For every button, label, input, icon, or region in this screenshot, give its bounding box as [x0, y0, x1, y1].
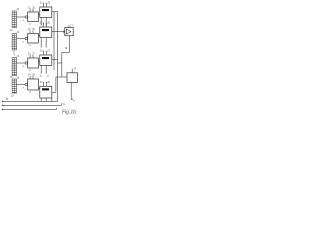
- tap numerals: [28, 28, 36, 31]
- delay line DL4: [12, 79, 16, 93]
- wire from DL4: [17, 84, 26, 86]
- L3 end tick: [56, 108, 58, 110]
- bus wire B2: [57, 12, 59, 102]
- wire A2 to F2: [38, 35, 39, 37]
- output line L3: [3, 108, 57, 110]
- junction circle J4: [25, 83, 27, 85]
- U2 top lead: [71, 69, 73, 73]
- bottom leads of F2: [41, 38, 47, 48]
- bias taps on A1: [30, 9, 33, 12]
- delay line DL3: [12, 58, 16, 76]
- numerals under F3 leads: [40, 75, 50, 77]
- U2 input wire: [56, 76, 67, 78]
- junction circle J3: [25, 62, 27, 64]
- output terminal tick: [71, 99, 73, 101]
- U2 output wire: [70, 82, 72, 99]
- output wire of F1: [52, 11, 58, 13]
- filter box F4: [40, 86, 52, 98]
- bus stub: [58, 62, 62, 64]
- delay line DL2: [12, 34, 16, 51]
- svg-text:Fig.1b: Fig.1b: [62, 109, 76, 115]
- wire into amplifier A1: [26, 16, 28, 18]
- repetition ellipsis dots: [13, 51, 16, 55]
- output wire of F4: [52, 92, 56, 94]
- summing amplifier U2: [67, 73, 77, 83]
- U1 input bar: [63, 30, 65, 33]
- amplifier A4: [28, 79, 39, 90]
- tap numerals: [28, 73, 36, 76]
- bottom leads of F4: [41, 98, 46, 101]
- tap numerals: [28, 52, 36, 55]
- summing amplifier U1: [65, 28, 73, 36]
- tap numerals: [28, 6, 36, 9]
- top control leads of F2: [43, 23, 47, 27]
- filter box F3: [40, 55, 52, 65]
- output line L1: [3, 100, 58, 102]
- wire down to summer: [61, 52, 63, 77]
- filter box F1: [40, 7, 52, 18]
- delay line DL1: [12, 11, 16, 28]
- wire from DL1: [17, 16, 26, 18]
- lead numerals: [40, 2, 51, 5]
- wire from DL2: [17, 38, 26, 40]
- wire into amplifier A2: [26, 38, 28, 40]
- U1 triangle symbol: [66, 29, 71, 34]
- wire F4 to output line: [51, 98, 53, 101]
- winding element W4: [42, 88, 49, 90]
- wire A1 to F1: [38, 14, 39, 16]
- wire from DL3: [17, 62, 26, 64]
- lead numerals: [40, 22, 51, 25]
- bus wire B1: [53, 12, 55, 71]
- bottom leads of F3: [41, 65, 47, 73]
- junction circle J1: [25, 16, 27, 18]
- top control leads of F4: [43, 82, 47, 86]
- terminal dot: [2, 105, 4, 107]
- U1 output wire down: [69, 36, 71, 53]
- filter box F2: [40, 27, 52, 38]
- wire: [62, 51, 70, 53]
- winding element W3: [42, 57, 49, 59]
- wire into amplifier A3: [26, 62, 28, 64]
- winding element W2: [42, 29, 49, 31]
- bottom leads of F1: [41, 18, 47, 26]
- output line L2: [3, 104, 62, 106]
- bias taps on A2: [30, 30, 33, 33]
- U1 top lead: [68, 25, 70, 27]
- amplifier A3: [28, 58, 39, 68]
- terminal dot: [2, 101, 4, 103]
- junction circle J2: [25, 37, 27, 39]
- lead numerals: [40, 81, 51, 84]
- wire A4 to F4: [38, 87, 39, 89]
- wire into amplifier A4: [26, 84, 28, 86]
- lead numerals: [40, 50, 51, 53]
- top control leads of F3: [43, 51, 47, 55]
- bias taps on A3: [30, 55, 33, 58]
- wire from F4 up to U2 input: [55, 77, 57, 93]
- wire A3 to F3: [38, 61, 39, 63]
- output wire of F2: [52, 31, 65, 33]
- amplifier A1: [28, 12, 39, 22]
- winding element W1: [42, 9, 49, 11]
- top control leads of F1: [43, 3, 47, 7]
- output wire of F3: [52, 59, 58, 61]
- L2 end tick: [61, 103, 63, 105]
- amplifier A2: [28, 34, 39, 44]
- terminal dot: [2, 109, 4, 111]
- bias taps on A4: [30, 76, 33, 79]
